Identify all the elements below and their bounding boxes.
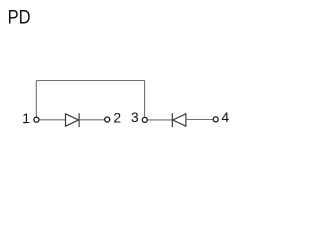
diode D1: [66, 113, 80, 127]
wire right vertical: [144, 81, 146, 117]
wire terminal 3 to diode D2: [148, 119, 173, 121]
terminal 4: [213, 117, 218, 122]
terminal 2: [105, 117, 110, 122]
svg-text:PD: PD: [8, 6, 31, 27]
terminal 3: [142, 117, 147, 122]
label PD: [8, 6, 31, 27]
wire diode D1 to terminal 2: [79, 119, 104, 121]
terminal 1: [34, 117, 39, 122]
wire diode D2 to terminal 4: [186, 119, 213, 121]
svg-text:4: 4: [221, 109, 229, 125]
wire terminal 1 to diode D1: [39, 119, 65, 121]
wire left vertical: [35, 81, 37, 117]
diode D2: [172, 113, 186, 127]
wire top horizontal: [36, 80, 144, 82]
svg-text:3: 3: [131, 109, 139, 125]
svg-text:1: 1: [22, 110, 30, 126]
svg-text:2: 2: [113, 110, 121, 126]
pin label 1: [22, 110, 30, 126]
